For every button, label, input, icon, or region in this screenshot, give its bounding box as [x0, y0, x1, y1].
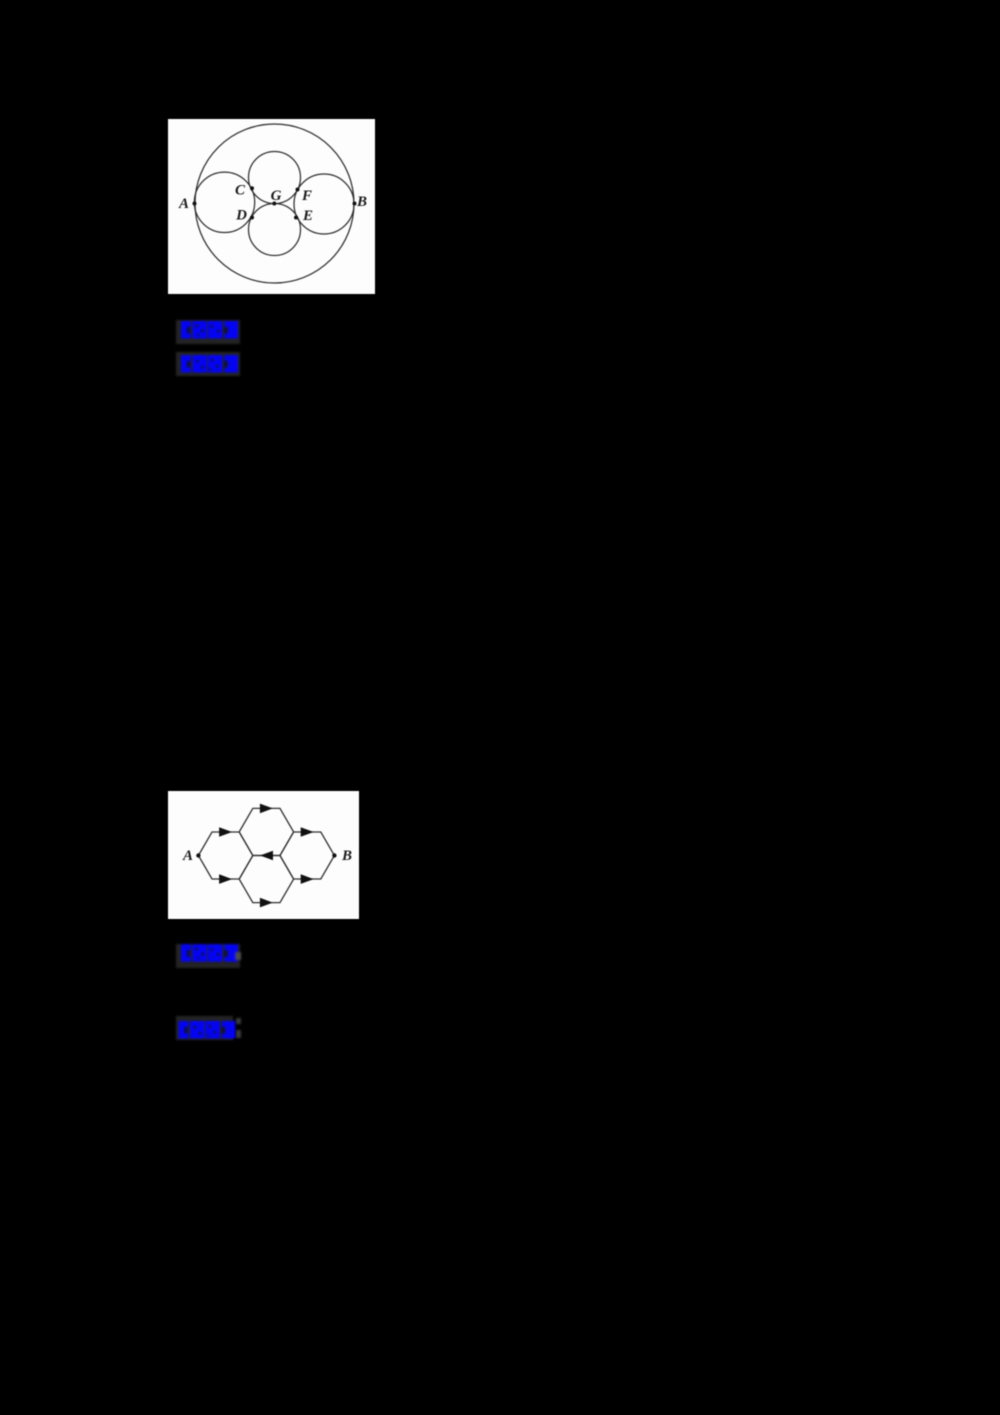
svg-text:C: C — [235, 183, 246, 199]
svg-text:B: B — [356, 194, 367, 210]
svg-text:B: B — [341, 848, 352, 864]
svg-text:A: A — [182, 848, 193, 864]
svg-text:F: F — [301, 188, 312, 204]
svg-text:D: D — [235, 208, 247, 224]
svg-text:E: E — [302, 208, 313, 224]
svg-text:G: G — [271, 188, 282, 204]
svg-text:A: A — [178, 196, 189, 212]
